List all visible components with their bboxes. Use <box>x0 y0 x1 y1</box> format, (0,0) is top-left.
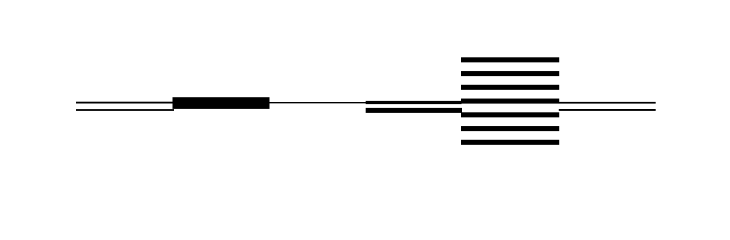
multi-layer section: stripe 4 <box>461 99 559 104</box>
wire: right pair top conductor <box>559 102 656 104</box>
multi-layer section: stripe 5 <box>461 112 559 117</box>
transmission line section W2 bottom conductor <box>366 108 462 113</box>
multi-layer section: stripe 6 <box>461 126 559 131</box>
multi-layer section: stripe 3 <box>461 85 559 90</box>
transmission line section W2 top conductor <box>366 101 462 104</box>
wire: left pair bottom conductor <box>76 109 174 111</box>
wire: right pair bottom conductor <box>559 109 656 111</box>
multi-layer section: stripe 1 <box>461 57 559 62</box>
transmission line section W1 (fat conductor) <box>173 97 270 109</box>
wire: left pair top conductor <box>76 102 173 104</box>
multi-layer section: stripe 7 <box>461 140 559 145</box>
multi-layer section: stripe 2 <box>461 71 559 76</box>
wire: thin center conductor <box>270 102 462 103</box>
